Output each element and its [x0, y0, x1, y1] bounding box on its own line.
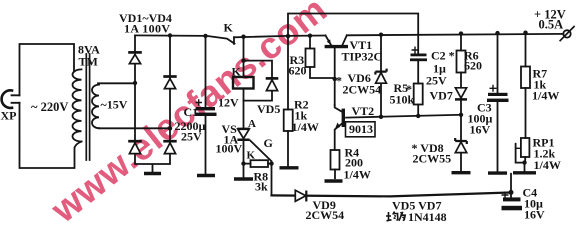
svg-text:K: K [247, 150, 256, 162]
svg-text:XP: XP [1, 109, 17, 123]
svg-text:~15V: ~15V [101, 98, 128, 112]
svg-text:2CW54: 2CW54 [306, 208, 345, 222]
svg-text:C1: C1 [184, 105, 199, 119]
svg-text:0.5A: 0.5A [539, 18, 564, 32]
svg-text:16V: 16V [470, 123, 491, 137]
svg-text:620: 620 [464, 59, 482, 73]
svg-text:1/4W: 1/4W [344, 168, 371, 182]
svg-text:1N4148: 1N4148 [408, 210, 447, 224]
svg-text:TIP32C: TIP32C [342, 50, 383, 64]
svg-text:25V: 25V [426, 74, 447, 88]
svg-text:C2 *: C2 * [431, 49, 455, 63]
svg-text:~ 220V: ~ 220V [31, 100, 68, 114]
svg-text:1A 100V: 1A 100V [124, 22, 170, 36]
svg-text:1/4W: 1/4W [532, 89, 559, 103]
svg-text:16V: 16V [524, 208, 545, 222]
svg-text:TM: TM [79, 55, 98, 69]
svg-text:9013: 9013 [349, 122, 373, 136]
svg-text:G: G [264, 136, 273, 150]
svg-text:VD5: VD5 [257, 102, 280, 116]
svg-text:510k: 510k [390, 93, 415, 107]
svg-text:2CW55: 2CW55 [413, 152, 452, 166]
svg-text:3k: 3k [255, 180, 268, 194]
svg-text:VD7: VD7 [430, 89, 453, 103]
svg-text:A: A [248, 118, 256, 130]
svg-text:VT2: VT2 [352, 104, 375, 118]
svg-text:25V: 25V [181, 130, 202, 144]
svg-text:100V: 100V [216, 142, 243, 156]
svg-text:1/4W: 1/4W [292, 120, 319, 134]
svg-text:1/4W: 1/4W [534, 158, 561, 172]
svg-text:2CW54: 2CW54 [343, 83, 382, 97]
svg-text:*: * [336, 74, 342, 88]
svg-text:620: 620 [289, 64, 307, 78]
svg-text:K: K [232, 65, 242, 79]
svg-text:K: K [224, 21, 234, 35]
svg-text:12V: 12V [218, 96, 239, 110]
